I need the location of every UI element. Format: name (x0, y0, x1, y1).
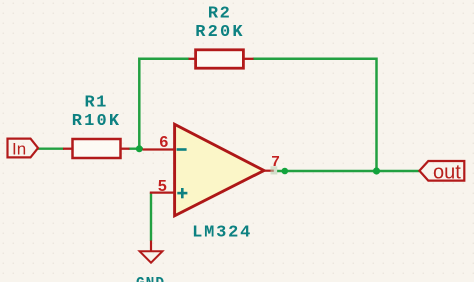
svg-text:5: 5 (158, 178, 167, 195)
svg-text:R10K: R10K (72, 112, 122, 131)
junction output pin7 (282, 168, 289, 175)
wire feedback left vertical (139, 59, 189, 149)
resistor R2 (189, 50, 254, 68)
wire R1 to junction A (129, 147, 144, 149)
pin 6 (143, 148, 175, 150)
op-amp U1 (143, 124, 280, 216)
svg-text:R20K: R20K (195, 23, 245, 42)
svg-text:R1: R1 (84, 94, 107, 113)
svg-text:LM324: LM324 (192, 223, 252, 242)
wire feedback right (253, 59, 377, 171)
pin 5 (150, 192, 175, 194)
svg-text:7: 7 (271, 153, 279, 170)
minus symbol (177, 148, 187, 151)
resistor R1 (63, 139, 130, 158)
ground (140, 241, 163, 263)
svg-text:GND: GND (136, 276, 165, 282)
connector out (419, 161, 464, 183)
junction feedback/out (373, 167, 380, 174)
connector In (8, 139, 39, 159)
wire In to R1 (37, 147, 64, 149)
svg-text:out: out (433, 161, 461, 183)
pin 7 (264, 170, 274, 172)
plus symbol (177, 188, 187, 198)
svg-text:6: 6 (159, 134, 168, 151)
pin 7 end marker (271, 166, 278, 174)
wire pin5 to ground (150, 193, 152, 241)
svg-text:In: In (12, 140, 26, 159)
junction A (136, 145, 143, 152)
svg-text:R2: R2 (208, 5, 231, 24)
wire output row (277, 170, 419, 172)
